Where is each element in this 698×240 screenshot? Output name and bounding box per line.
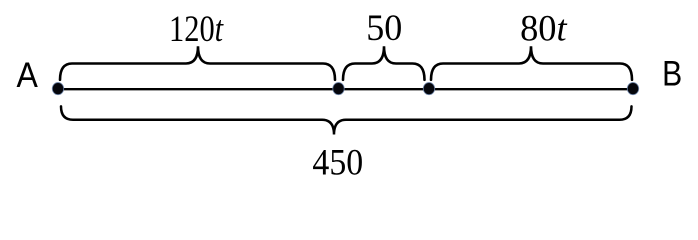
svg-text:120t: 120t: [169, 9, 225, 49]
svg-text:50: 50: [366, 8, 402, 48]
svg-text:450: 450: [312, 141, 363, 178]
svg-text:A: A: [16, 57, 38, 96]
svg-text:80t: 80t: [520, 7, 567, 48]
svg-text:B: B: [662, 54, 682, 94]
